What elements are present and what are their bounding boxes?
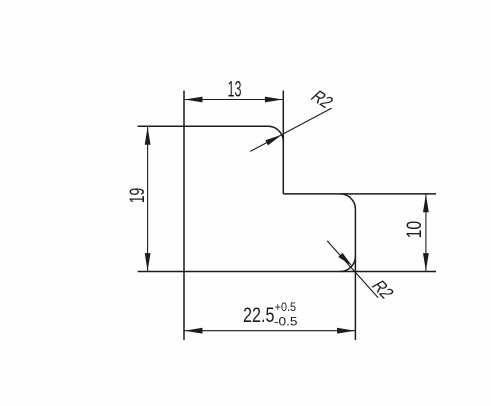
svg-text:+0.5: +0.5: [275, 302, 297, 314]
svg-text:-0.5: -0.5: [274, 317, 298, 329]
dimension line 19: [147, 126, 149, 271]
leader line R2 bottom: [327, 241, 378, 298]
upper right edge with extension: [282, 91, 284, 194]
svg-text:13: 13: [228, 77, 242, 102]
bottom-right corner arc R2: [340, 257, 355, 272]
arrow 10 down: [423, 253, 429, 271]
arrow 22.5 right: [337, 328, 355, 334]
top edge with left extension: [138, 125, 268, 127]
svg-text:19: 19: [126, 188, 149, 204]
dimension line 22.5: [184, 330, 355, 332]
svg-text:22.5: 22.5: [243, 304, 275, 327]
svg-text:10: 10: [403, 221, 426, 239]
leader line R2 top: [250, 108, 331, 151]
arrow leader R2 bottom: [338, 253, 352, 266]
bottom edge with extensions: [138, 271, 436, 273]
step corner arc: [340, 194, 355, 209]
arrow 13 left: [184, 97, 202, 103]
arrow 19 down: [145, 253, 151, 271]
lower right edge with extension: [354, 209, 356, 340]
arrow 22.5 left: [184, 328, 202, 334]
arrow 13 right: [265, 97, 283, 103]
top-right corner arc R2: [268, 126, 283, 141]
arrow leader R2 top: [265, 135, 281, 146]
left edge with extension lines: [183, 91, 185, 341]
dimension line 13: [184, 99, 283, 101]
dimension line 10: [425, 194, 427, 272]
arrow 10 up: [423, 194, 429, 212]
arrow 19 up: [145, 127, 151, 145]
step edge with right extension: [283, 193, 436, 195]
